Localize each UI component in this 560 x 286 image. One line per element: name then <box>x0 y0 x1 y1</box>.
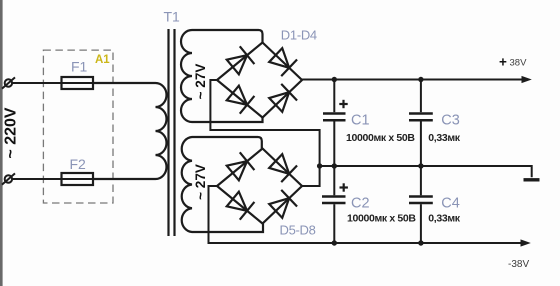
svg-text:~ 27V: ~ 27V <box>193 64 208 100</box>
svg-text:0,33мк: 0,33мк <box>428 132 460 144</box>
svg-text:D1-D4: D1-D4 <box>281 27 317 42</box>
svg-text:C3: C3 <box>441 112 460 128</box>
svg-text:D5-D8: D5-D8 <box>280 222 316 237</box>
svg-text:F1: F1 <box>71 59 88 75</box>
svg-text:T1: T1 <box>164 9 181 25</box>
svg-text:~ 27V: ~ 27V <box>193 164 208 200</box>
svg-text:10000мк х 50В: 10000мк х 50В <box>346 132 415 144</box>
svg-text:C1: C1 <box>351 112 370 128</box>
svg-text:F2: F2 <box>70 156 87 172</box>
svg-text:C4: C4 <box>441 195 460 211</box>
svg-text:A1: A1 <box>95 54 110 66</box>
svg-text:-38V: -38V <box>508 259 529 270</box>
svg-text:+: + <box>499 55 507 70</box>
svg-text:C2: C2 <box>351 196 370 212</box>
svg-text:~ 220V: ~ 220V <box>3 107 20 158</box>
svg-text:0,33мк: 0,33мк <box>428 213 460 225</box>
svg-text:10000мк х 50В: 10000мк х 50В <box>347 213 416 225</box>
svg-text:38V: 38V <box>510 58 528 69</box>
